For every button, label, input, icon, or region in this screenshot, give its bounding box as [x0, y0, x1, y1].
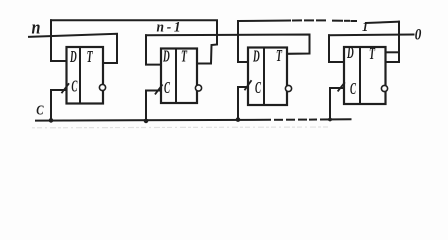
svg-text:T: T	[87, 49, 93, 67]
svg-text:D: D	[69, 47, 76, 66]
svg-text:C: C	[255, 78, 262, 97]
svg-text:C: C	[71, 76, 78, 95]
svg-text:T: T	[369, 46, 375, 64]
svg-text:C: C	[36, 102, 44, 118]
svg-text:0: 0	[415, 27, 422, 44]
svg-text:C: C	[164, 78, 171, 97]
svg-text:D: D	[252, 47, 259, 66]
svg-text:T: T	[181, 48, 187, 66]
svg-text:D: D	[346, 43, 353, 62]
svg-text:C: C	[350, 79, 357, 98]
svg-text:T: T	[276, 48, 282, 66]
svg-text:n: n	[32, 16, 41, 38]
svg-text:D: D	[162, 47, 169, 66]
svg-text:n - 1: n - 1	[157, 19, 181, 36]
svg-text:1: 1	[362, 18, 368, 34]
